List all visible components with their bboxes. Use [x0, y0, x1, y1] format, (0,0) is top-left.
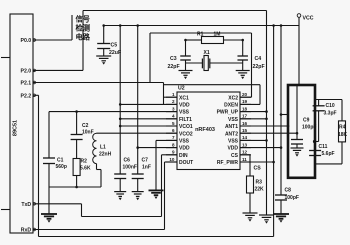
- svg-text:3.3pF: 3.3pF: [324, 111, 337, 117]
- junction ANT2/C9: [296, 132, 299, 135]
- wire C8 bottom: [280, 200, 282, 214]
- wire node L down: [185, 40, 187, 56]
- svg-text:22nH: 22nH: [99, 152, 112, 158]
- svg-text:C1: C1: [57, 158, 64, 164]
- svg-text:VCO2: VCO2: [179, 131, 193, 137]
- pin stub 18: [240, 111, 251, 113]
- svg-text:C2: C2: [82, 123, 89, 129]
- svg-text:VDD: VDD: [179, 146, 190, 152]
- svg-text:C8: C8: [285, 188, 292, 194]
- wire C2-R2: [76, 140, 78, 159]
- wire jog to loop: [315, 141, 319, 143]
- junction ANT1/loop: [287, 125, 290, 128]
- wire L1 bottom: [96, 164, 98, 170]
- junction tap A / pin5: [119, 125, 122, 128]
- wire matching top: [315, 99, 343, 101]
- svg-text:CS: CS: [231, 153, 239, 159]
- junction pin11: [272, 161, 275, 164]
- ground pin7 VSS: [149, 190, 164, 199]
- pin stub 5: [166, 125, 177, 127]
- inductor L1: [93, 133, 97, 163]
- wire R1 right lead: [224, 39, 243, 41]
- svg-text:R2: R2: [81, 159, 88, 165]
- svg-text:89C51: 89C51: [13, 120, 19, 136]
- wire filter ground rail: [49, 186, 101, 188]
- svg-text:5.6K: 5.6K: [80, 166, 91, 172]
- pin stub 16: [240, 125, 251, 127]
- svg-text:9: 9: [172, 150, 175, 155]
- wire pin16 ANT1: [240, 125, 288, 127]
- svg-text:XC1: XC1: [179, 95, 189, 101]
- svg-text:22pF: 22pF: [253, 64, 265, 70]
- resistor R3: [247, 176, 254, 193]
- svg-text:4: 4: [172, 114, 175, 119]
- wire pin19 DXEN: [240, 103, 260, 105]
- wire crystal inner return: [164, 84, 261, 86]
- pin stub 7: [166, 139, 177, 141]
- wire TxD drop: [81, 204, 83, 217]
- capacitor C5: [97, 44, 110, 49]
- wire pin10 DOUT: [165, 161, 178, 163]
- wire P2.0: [33, 69, 83, 71]
- capacitor C7: [132, 174, 144, 179]
- wire VCC drop to antenna box: [298, 17, 300, 85]
- svg-text:VSS: VSS: [228, 139, 239, 145]
- junction VDD/loop nub: [280, 113, 283, 116]
- pin stub 3: [166, 111, 177, 113]
- svg-text:VCO1: VCO1: [179, 124, 193, 130]
- wire long vertical rail2 to bottom: [273, 26, 275, 237]
- wire pin9 DIN: [162, 154, 178, 156]
- svg-text:22K: 22K: [255, 187, 265, 193]
- wire C2 top: [76, 112, 78, 135]
- wire DIN down: [161, 155, 163, 217]
- wire rail1 descender to gnd: [266, 11, 268, 216]
- svg-text:C5: C5: [111, 43, 118, 49]
- pin stub 6: [166, 132, 177, 134]
- svg-text:R3: R3: [256, 180, 263, 186]
- wire bottom run: [39, 236, 274, 238]
- svg-text:3: 3: [172, 106, 175, 111]
- svg-text:2: 2: [172, 99, 175, 104]
- wire C11 bottom: [314, 156, 316, 164]
- ground C4: [236, 71, 250, 80]
- wire P0.0 to detect circuit: [33, 39, 72, 41]
- svg-text:nRF403: nRF403: [195, 127, 215, 133]
- wire pin17 VSS: [240, 118, 267, 120]
- svg-text:16: 16: [242, 121, 248, 126]
- wire tap A down to C6: [119, 26, 121, 175]
- wire down to pin1 XC1: [163, 83, 165, 105]
- svg-text:8: 8: [172, 142, 175, 147]
- resistor R1: [202, 37, 224, 44]
- svg-text:X1: X1: [204, 50, 210, 56]
- svg-text:12: 12: [242, 150, 248, 155]
- svg-text:C6: C6: [124, 158, 131, 164]
- junction pin14 VSS: [265, 139, 268, 142]
- capacitor C3: [180, 56, 191, 60]
- wire R4 bottom: [341, 142, 343, 164]
- svg-text:C7: C7: [142, 158, 149, 164]
- svg-text:17: 17: [242, 114, 248, 119]
- MCU left stub 1: [1, 57, 10, 59]
- wire pin2 VDD: [120, 103, 177, 105]
- svg-text:U2: U2: [178, 86, 185, 92]
- capacitor C2: [71, 135, 83, 140]
- svg-text:100pF: 100pF: [285, 195, 299, 201]
- svg-text:100pF: 100pF: [302, 125, 316, 131]
- junction pin18 PWR_UP: [265, 110, 268, 113]
- junction pin17 VSS: [265, 118, 268, 121]
- junction rail2 tap A: [119, 24, 122, 27]
- svg-text:1nF: 1nF: [142, 165, 151, 171]
- pin stub 13: [240, 147, 251, 149]
- capacitor C9: [291, 140, 303, 145]
- pin stub 4: [166, 118, 177, 120]
- wire X1 right lead: [210, 62, 243, 64]
- wire pin7 VSS to ground: [155, 140, 157, 190]
- ground C6: [114, 192, 126, 201]
- svg-text:P0.0: P0.0: [21, 38, 32, 44]
- svg-text:7: 7: [172, 135, 175, 140]
- pin stub 20: [240, 96, 251, 98]
- resistor R2: [73, 159, 80, 176]
- svg-text:PWR_UP: PWR_UP: [217, 110, 239, 116]
- IC U2 nRF403 body: [177, 92, 240, 170]
- wire pin8 VDD: [138, 147, 177, 149]
- wire rail2 (VCC): [104, 25, 299, 27]
- junction rail2/long vertical: [272, 24, 275, 27]
- svg-text:R4: R4: [339, 125, 346, 131]
- wire C7 bottom: [137, 179, 139, 192]
- pin stub 11: [240, 161, 251, 163]
- svg-text:C9: C9: [303, 118, 310, 124]
- junction node L: [184, 39, 187, 42]
- svg-text:6: 6: [172, 128, 175, 133]
- ground C7: [132, 192, 144, 201]
- wire C9 bottom: [296, 144, 298, 148]
- wire pin3 VSS / filter: [49, 111, 177, 113]
- svg-text:C3: C3: [170, 56, 177, 62]
- wire rail1 (P2.0 net): [83, 10, 267, 12]
- wire CS down: [249, 155, 251, 176]
- svg-text:10: 10: [169, 157, 175, 162]
- junction C2 tap: [75, 110, 78, 113]
- svg-text:P2.0: P2.0: [21, 68, 32, 74]
- wire crystal top edge: [150, 32, 252, 34]
- wire VDD right drop / C8: [280, 26, 282, 196]
- svg-text:ANT1: ANT1: [225, 124, 238, 130]
- svg-text:18K: 18K: [338, 132, 348, 138]
- IC 89C51 body: [10, 14, 33, 233]
- wire TxD: [33, 203, 82, 205]
- svg-text:FILT1: FILT1: [179, 117, 192, 123]
- svg-text:13: 13: [242, 142, 248, 147]
- wire C1 top: [48, 112, 50, 158]
- svg-text:C4: C4: [255, 56, 262, 62]
- wire P2.0 riser: [82, 11, 84, 71]
- capacitor C8: [275, 195, 287, 200]
- wire matching bottom: [315, 163, 342, 165]
- svg-text:5: 5: [172, 121, 175, 126]
- wire nub VDD to loop edge: [281, 114, 288, 116]
- svg-text:22uF: 22uF: [109, 50, 121, 56]
- pin stub 8: [166, 147, 177, 149]
- wire R1 left lead: [186, 39, 202, 41]
- wire return down to pin19: [259, 85, 261, 105]
- svg-text:5.6pF: 5.6pF: [322, 151, 335, 157]
- svg-text:14: 14: [242, 135, 248, 140]
- junction tap A / pin4: [119, 118, 122, 121]
- svg-text:TxD: TxD: [21, 202, 31, 208]
- wire pin18 PWR_UP: [240, 111, 267, 113]
- pin stub 10: [166, 161, 177, 163]
- pin stub 2: [166, 103, 177, 105]
- svg-text:1M: 1M: [214, 32, 221, 38]
- wire pin1 XC1: [164, 96, 178, 98]
- wire R2 bottom: [76, 176, 78, 188]
- ground MCU-side: [41, 214, 57, 223]
- svg-text:19: 19: [242, 99, 248, 104]
- wire pin6 VCO2: [97, 132, 178, 134]
- wire C10 top: [318, 100, 320, 106]
- svg-text:VSS: VSS: [179, 110, 190, 116]
- svg-text:10nF: 10nF: [82, 130, 94, 136]
- wire C11 top: [314, 142, 316, 151]
- svg-text:C10: C10: [326, 103, 335, 109]
- svg-text:1: 1: [172, 92, 175, 97]
- wire C9 top: [296, 85, 298, 140]
- ground mid-right: [259, 215, 274, 224]
- svg-text:RF_PWR: RF_PWR: [217, 160, 239, 166]
- pin stub 12: [240, 154, 251, 156]
- junction node R: [241, 39, 244, 42]
- svg-text:VDD: VDD: [179, 103, 190, 109]
- wire pin15 ANT2: [240, 132, 297, 134]
- wire crystal left edge: [149, 33, 151, 83]
- ground R3: [243, 213, 258, 222]
- junction rail2 tap B: [136, 24, 139, 27]
- svg-text:P2.2: P2.2: [21, 93, 32, 99]
- svg-text:22pF: 22pF: [168, 64, 180, 70]
- pin stub 14: [240, 139, 251, 141]
- wire pin7 VSS: [156, 139, 177, 141]
- svg-text:VCC: VCC: [303, 16, 314, 22]
- svg-text:P2.1: P2.1: [21, 81, 32, 87]
- wire L1 down: [100, 170, 102, 188]
- junction rail2/VDD right: [280, 24, 283, 27]
- svg-text:15: 15: [242, 128, 248, 133]
- svg-text:VSS: VSS: [228, 117, 239, 123]
- ground C8: [273, 214, 289, 223]
- wire X1 left lead: [186, 62, 203, 64]
- pin stub 15: [240, 132, 251, 134]
- wire top edge down to pin20 XC2: [251, 33, 253, 97]
- svg-text:VDD: VDD: [227, 146, 238, 152]
- wire pin11 RF_PWR: [240, 161, 274, 163]
- resistor R4: [339, 121, 346, 142]
- pin stub 9: [166, 154, 177, 156]
- junction rail2/C5: [102, 24, 105, 27]
- wire rail to ground: [48, 187, 50, 214]
- wire R3 bottom: [249, 193, 251, 213]
- crystal X1 body: [204, 56, 208, 71]
- svg-text:11: 11: [242, 157, 247, 162]
- wire C1 bottom: [48, 164, 50, 188]
- junction R2/rail: [75, 186, 78, 189]
- svg-text:R1: R1: [197, 32, 204, 38]
- svg-text:ANT2: ANT2: [225, 131, 238, 137]
- capacitor C4: [237, 56, 248, 60]
- wire DOUT down: [164, 162, 166, 230]
- wire pin12 CS: [240, 154, 250, 156]
- ground C9: [291, 148, 304, 157]
- svg-text:L1: L1: [100, 145, 106, 151]
- capacitor C11: [309, 151, 321, 156]
- wire pin5 VCO1 stub: [120, 125, 177, 127]
- wire pin13 VDD: [240, 147, 281, 149]
- junction loop mid: [313, 140, 316, 143]
- capacitor C6: [114, 174, 126, 179]
- svg-text:20: 20: [242, 92, 248, 97]
- junction pin13 VDD: [280, 146, 283, 149]
- wire C5 bottom: [103, 49, 105, 57]
- wire node R down: [242, 40, 244, 56]
- wire C6 bottom: [119, 179, 121, 192]
- pin stub 17: [240, 118, 251, 120]
- pin stub 19: [240, 103, 251, 105]
- junction tap A / pin2: [119, 103, 122, 106]
- wire pin20 XC2: [240, 96, 252, 98]
- svg-text:DXEN: DXEN: [224, 103, 238, 109]
- wire detect circuit riser: [71, 15, 73, 40]
- wire TxD run: [82, 216, 162, 218]
- crystal X1 left plate: [201, 59, 203, 69]
- wire C10 bottom: [318, 111, 320, 142]
- wire RxD: [33, 229, 165, 231]
- svg-text:VSS: VSS: [179, 139, 190, 145]
- capacitor C10: [313, 106, 325, 111]
- svg-text:CS: CS: [254, 166, 262, 172]
- svg-text:XC2: XC2: [228, 95, 238, 101]
- svg-text:560p: 560p: [56, 164, 67, 170]
- wire P2.2 down: [38, 95, 40, 236]
- MCU left stub 2: [1, 209, 10, 211]
- ground C3: [179, 71, 193, 80]
- wire P2.1: [33, 82, 164, 84]
- wire C3 bottom: [185, 60, 187, 71]
- svg-text:RxD: RxD: [21, 228, 32, 234]
- wire R4 top: [341, 100, 343, 121]
- antenna loop (thick): [288, 85, 315, 178]
- svg-text:C11: C11: [319, 144, 328, 150]
- crystal X1 right plate: [209, 59, 211, 69]
- svg-text:DIN: DIN: [179, 153, 188, 159]
- pin stub 1: [166, 96, 177, 98]
- wire tap B down to C7: [137, 26, 139, 175]
- capacitor C1: [43, 158, 55, 164]
- junction tap B / pin8: [136, 146, 139, 149]
- terminal VCC: [297, 14, 301, 18]
- wire L1 jog: [97, 169, 102, 171]
- wire pin14 VSS: [240, 139, 267, 141]
- wire pin4 FILT1 stub: [120, 118, 177, 120]
- svg-text:DOUT: DOUT: [179, 160, 193, 166]
- wire P2.2: [33, 94, 39, 96]
- ground C5: [96, 56, 111, 65]
- wire C4 bottom: [242, 60, 244, 71]
- svg-text:18: 18: [242, 106, 248, 111]
- svg-text:100nF: 100nF: [123, 165, 137, 171]
- wire C5 top: [103, 26, 105, 44]
